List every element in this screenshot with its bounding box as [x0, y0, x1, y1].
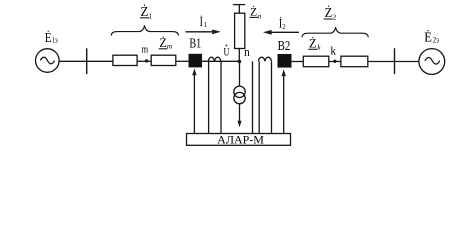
source E2 circle [419, 49, 445, 75]
node m dot [145, 59, 148, 62]
svg-text:Ż: Ż [159, 35, 167, 50]
voltage tap right of n [252, 61, 254, 133]
bus bar left [86, 48, 88, 74]
resistor Z2-right box [341, 56, 368, 66]
wire left: E1 to Zm chain [59, 60, 113, 62]
ALAR-M device box [187, 134, 291, 146]
Zn top stem [238, 5, 240, 14]
breaker B2 square [278, 54, 292, 68]
svg-text:1э: 1э [52, 36, 58, 45]
svg-text:АЛАР-М: АЛАР-М [217, 134, 264, 146]
svg-text:k: k [330, 44, 336, 58]
svg-text:1: 1 [149, 13, 153, 21]
svg-text:B1: B1 [189, 36, 201, 51]
current arrow I1 [186, 31, 215, 33]
svg-text:1: 1 [204, 21, 208, 29]
CT1 coil bumps [208, 57, 221, 61]
svg-text:U: U [224, 44, 230, 58]
resistor Zm box [151, 55, 176, 65]
CT2 coil bumps [258, 57, 271, 61]
impedance Zn branch: top terminal bar [233, 4, 245, 6]
svg-text:Ė: Ė [424, 29, 432, 45]
CT1 secondary lead left [208, 61, 210, 133]
wire Zm to B1 [176, 60, 189, 62]
svg-text:m: m [142, 45, 149, 56]
VT circles [234, 86, 245, 97]
wire box1 to box2 through node m [137, 60, 151, 62]
wire B2 to Zk [292, 61, 304, 63]
brace Z2 [302, 27, 368, 37]
CT2 secondary lead left [258, 61, 260, 133]
current arrow I2 [270, 31, 300, 33]
svg-text:Ż: Ż [325, 5, 333, 20]
svg-text:m: m [167, 41, 173, 50]
wire B1 to node n with CT1 [202, 60, 239, 62]
source E1 sine [40, 57, 54, 64]
svg-text:Ė: Ė [45, 30, 52, 46]
svg-text:Ż: Ż [309, 36, 317, 51]
breaker B1 square [189, 54, 203, 68]
source E1 circle [36, 49, 60, 73]
svg-text:Ż: Ż [250, 5, 257, 19]
source E2 sine [425, 58, 440, 65]
svg-text:2: 2 [333, 14, 337, 22]
node k dot [333, 60, 336, 63]
Zn bottom stem to node n [238, 49, 240, 62]
wire box4 to E2 [368, 61, 419, 63]
brace Z1 [111, 25, 178, 35]
VT output arrow down to ALAR-M [239, 104, 241, 122]
svg-text:n: n [258, 12, 262, 21]
svg-text:n: n [244, 44, 250, 59]
svg-text:B2: B2 [278, 39, 291, 54]
svg-text:Ż: Ż [141, 4, 149, 19]
resistor Zn box (vertical) [235, 13, 245, 48]
CT1 secondary lead right [220, 61, 222, 133]
svg-text:İ: İ [200, 15, 203, 29]
resistor Z1-left box [113, 55, 137, 65]
svg-text:2: 2 [282, 23, 286, 31]
wire Zk to box4 through node k [329, 61, 341, 63]
CT2 secondary lead right [271, 61, 273, 133]
resistor Zk box [303, 56, 329, 66]
node n dot [238, 60, 242, 64]
svg-text:2э: 2э [433, 35, 440, 44]
up arrow into B1 [193, 74, 195, 134]
svg-text:k: k [317, 42, 321, 51]
up arrow into B2 [283, 75, 285, 134]
bus bar right [394, 48, 396, 74]
VT line node n down [239, 61, 241, 86]
